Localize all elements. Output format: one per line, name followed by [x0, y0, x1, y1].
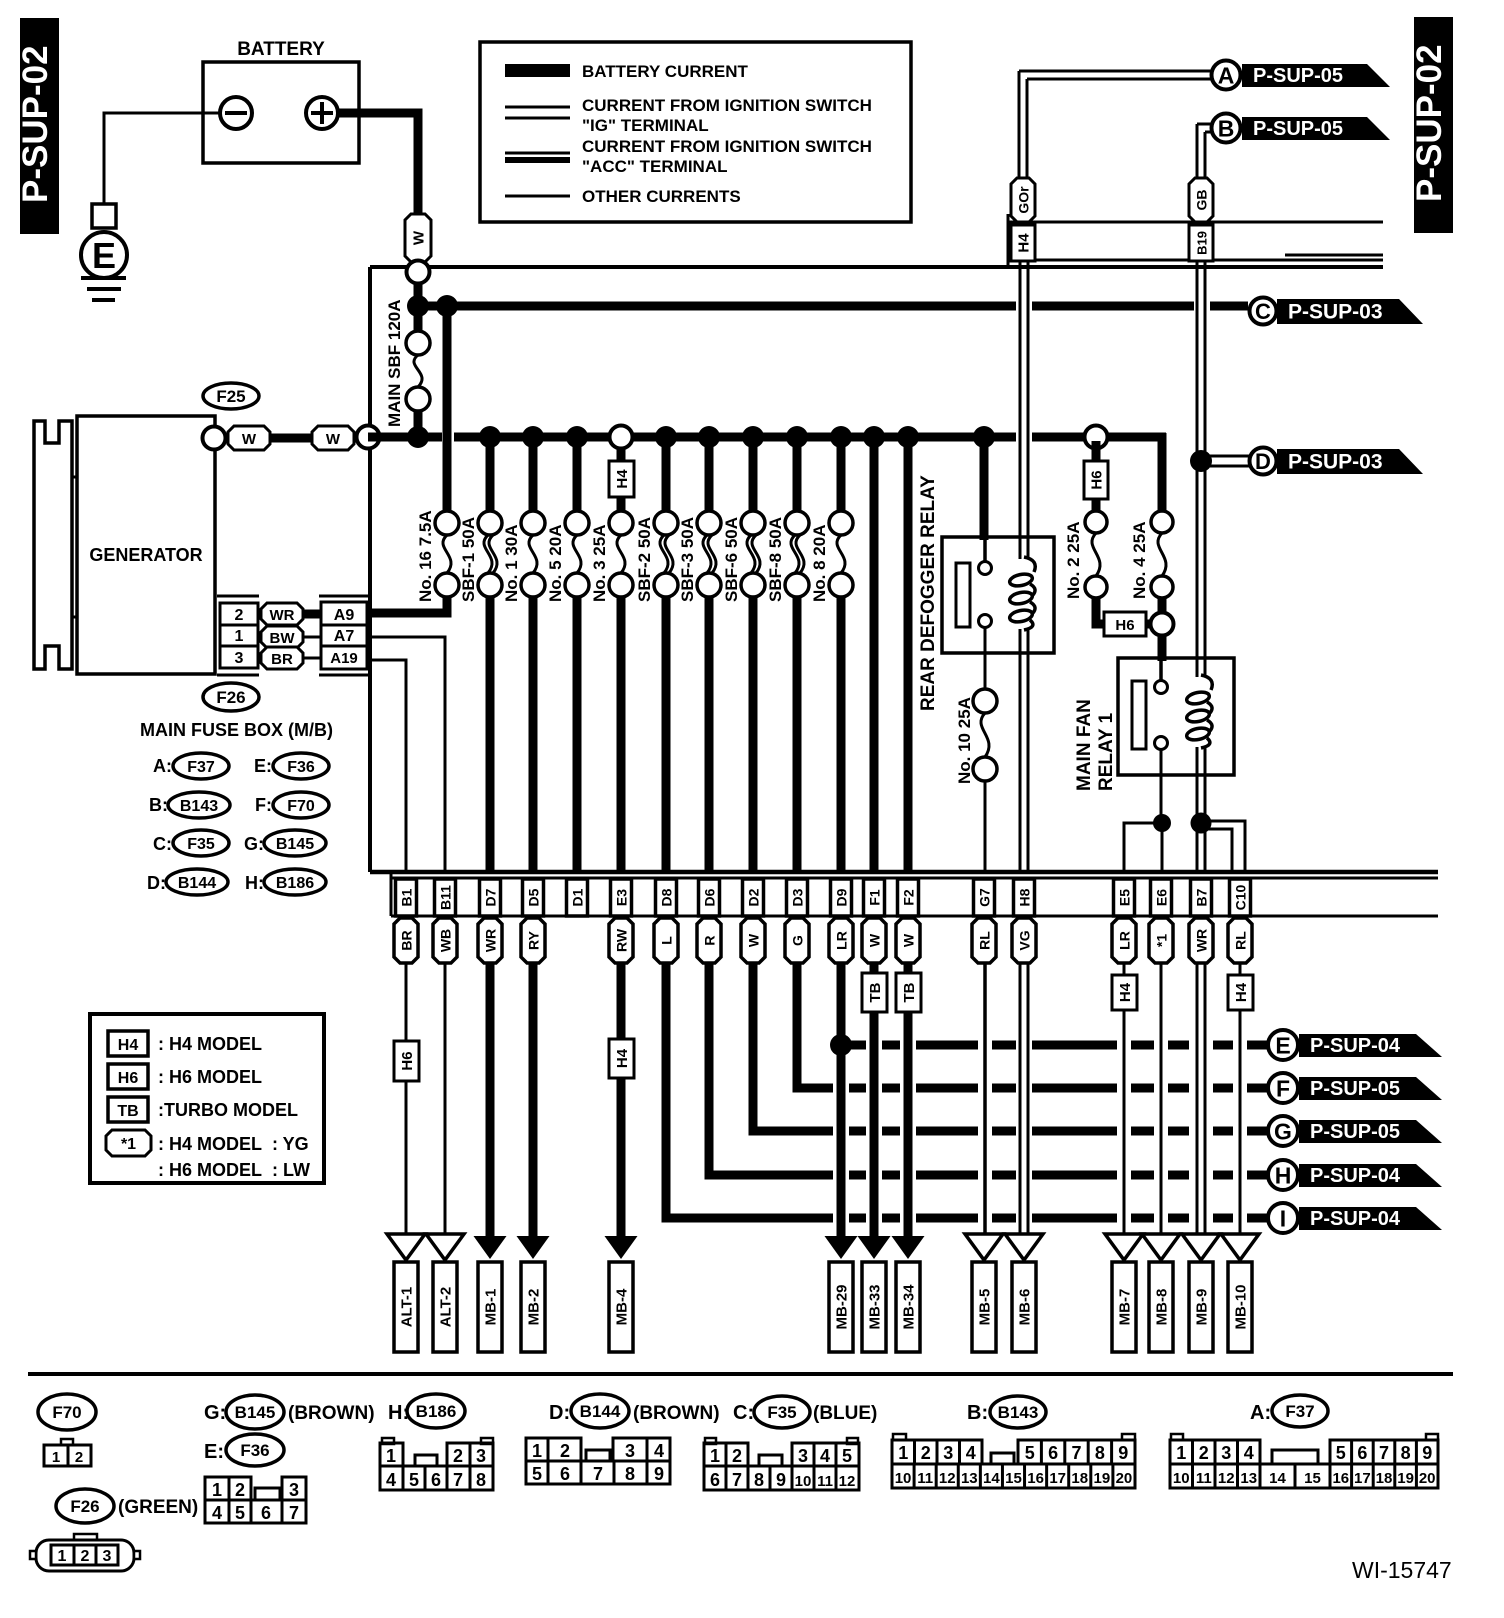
svg-text:H4: H4: [614, 1048, 631, 1068]
svg-text:A19: A19: [330, 650, 358, 667]
svg-text:MB-9: MB-9: [1194, 1289, 1211, 1326]
wire B7 WR to MB-9: [1196, 963, 1199, 1237]
svg-text:2: 2: [81, 1548, 90, 1565]
wire B1 BR to H6: [405, 963, 408, 1041]
arrow to ALT-1: [387, 1234, 425, 1260]
svg-text:4: 4: [1244, 1443, 1254, 1463]
pin E6 box: [1151, 879, 1172, 916]
svg-text:LR: LR: [1117, 931, 1133, 950]
svg-text:TB: TB: [867, 982, 884, 1002]
generator pins 2/1/3 box: [220, 603, 258, 668]
node connector fuse box left edge: [357, 426, 380, 449]
wire W pill fusebox side: [312, 426, 354, 450]
svg-text:MB-2: MB-2: [526, 1289, 543, 1326]
svg-text:F25: F25: [216, 387, 245, 406]
model legend H6: [108, 1064, 148, 1089]
svg-text:OTHER CURRENTS: OTHER CURRENTS: [582, 187, 741, 206]
pin E5 box: [1114, 879, 1135, 916]
svg-text:: H4 MODEL : YG: : H4 MODEL : YG: [158, 1134, 309, 1154]
wire E3 RW upper: [617, 963, 626, 1039]
legend box: [480, 42, 911, 222]
wire battery negative to ground: [104, 113, 203, 206]
svg-text:P-SUP-05: P-SUP-05: [1253, 65, 1343, 87]
legend ACC current symbol: [505, 152, 570, 155]
svg-text:5: 5: [532, 1464, 542, 1484]
node junction E line on MB-29 wire: [830, 1034, 852, 1056]
page title banner right P-SUP-02: [1414, 17, 1453, 233]
svg-text:5: 5: [235, 1503, 245, 1523]
svg-text:H4: H4: [614, 469, 631, 489]
wire bus to defogger contact: [980, 437, 989, 540]
model legend *1: [106, 1130, 151, 1156]
wire bus drop to fuse No. 8 20A: [837, 437, 846, 511]
terminal box MB-4: [609, 1262, 633, 1352]
node junction B7/C10 branch: [1191, 813, 1212, 834]
wire No.16 column: [443, 310, 452, 511]
wire GB label pill: [1189, 178, 1213, 222]
terminal box MB-1: [478, 1262, 502, 1352]
svg-text:19: 19: [1094, 1470, 1111, 1487]
wire fuse No. 3 25A to pin E3: [617, 597, 626, 874]
wire bus drop to fuse SBF-2 50A: [662, 437, 671, 511]
svg-text:W: W: [746, 933, 762, 947]
svg-text:6: 6: [261, 1503, 271, 1523]
svg-text:R: R: [702, 935, 718, 945]
svg-text:10: 10: [895, 1470, 912, 1487]
svg-text:1: 1: [235, 628, 244, 645]
fuse box pin strip: [390, 872, 393, 916]
svg-text:F36: F36: [287, 759, 315, 776]
pin F1 box: [864, 879, 885, 916]
svg-text:I: I: [1280, 1205, 1286, 1231]
wire H line: [709, 1171, 833, 1180]
generator box: [77, 416, 215, 674]
wire bus drop to F2: [904, 437, 913, 874]
terminal box MB-5: [972, 1262, 996, 1352]
wire color pill RW under E3: [609, 918, 633, 963]
svg-text:3: 3: [235, 650, 244, 667]
svg-text:MB-6: MB-6: [1017, 1289, 1034, 1326]
svg-text:H:: H:: [245, 873, 264, 893]
svg-text:ALT-1: ALT-1: [399, 1287, 416, 1328]
connector strip top right: [1007, 214, 1010, 267]
pin B11 box: [435, 879, 456, 916]
node bus junction x=418: [407, 426, 429, 448]
page title banner left P-SUP-02: [20, 18, 59, 234]
svg-text:6: 6: [560, 1464, 570, 1484]
svg-text:P-SUP-04: P-SUP-04: [1310, 1035, 1401, 1057]
svg-text:1: 1: [58, 1548, 67, 1565]
wire A9 battery feed to fuse No.16: [367, 596, 447, 613]
svg-text:D: D: [1255, 449, 1271, 474]
svg-text:7: 7: [289, 1503, 299, 1523]
wire G line: [753, 1127, 833, 1136]
svg-text:A: A: [1218, 62, 1235, 88]
wire bus drop to F1: [870, 437, 879, 874]
relay coil main fan: [1186, 675, 1213, 748]
wire color pill WB under B11: [433, 918, 457, 963]
svg-text:No. 5 20A: No. 5 20A: [546, 525, 565, 602]
svg-text:6: 6: [1357, 1443, 1367, 1463]
fuse SBF-1 50A: [478, 511, 502, 535]
model box H6 below fuses: [1104, 612, 1146, 636]
wire fuse SBF-3 50A to pin D6: [705, 597, 714, 874]
wire bus drop to fuse SBF-3 50A: [705, 437, 714, 511]
svg-text:(BROWN): (BROWN): [288, 1403, 375, 1424]
wire fuse No.4 to node: [1158, 598, 1167, 614]
svg-text:No. 3 25A: No. 3 25A: [590, 525, 609, 602]
wire color pill VG under H8: [1012, 918, 1036, 963]
wire F2 W to MB-34: [904, 1012, 913, 1238]
arrow E P-SUP-04: [1299, 1034, 1442, 1057]
wire fuse SBF-6 50A to pin D2: [749, 597, 758, 874]
svg-text:6: 6: [1048, 1443, 1058, 1463]
svg-text:MB-10: MB-10: [1233, 1284, 1250, 1329]
svg-text:1: 1: [1176, 1443, 1186, 1463]
svg-text:F37: F37: [1285, 1402, 1314, 1421]
svg-text:No. 16 7.5A: No. 16 7.5A: [416, 510, 435, 602]
svg-text:P-SUP-05: P-SUP-05: [1310, 1078, 1400, 1100]
connector H4 pin box: [1011, 225, 1035, 261]
node bus junction x=666: [655, 426, 677, 448]
arrow to MB-1: [474, 1236, 507, 1259]
svg-text:E: E: [1275, 1032, 1290, 1058]
svg-text:H6: H6: [1115, 617, 1134, 634]
fuse No. 10 25A: [973, 689, 997, 713]
svg-text:H6: H6: [399, 1051, 416, 1070]
svg-text:SBF-8 50A: SBF-8 50A: [766, 517, 785, 602]
svg-text:A7: A7: [334, 628, 355, 645]
svg-text:H4: H4: [118, 1037, 139, 1054]
terminal box MB-10: [1228, 1262, 1252, 1352]
pin D5 box: [523, 879, 544, 916]
wire D2 W to arrow G: [753, 963, 833, 1131]
svg-text:9: 9: [776, 1470, 786, 1490]
svg-text:No. 4 25A: No. 4 25A: [1130, 522, 1149, 599]
wire fan output to E5: [1124, 823, 1162, 874]
svg-text:G:: G:: [244, 834, 264, 854]
svg-text:E:: E:: [204, 1441, 224, 1463]
svg-text:"ACC" TERMINAL: "ACC" TERMINAL: [582, 157, 728, 176]
svg-text:1: 1: [532, 1441, 542, 1461]
arrow to MB-33: [858, 1236, 891, 1259]
svg-text:"IG" TERMINAL: "IG" TERMINAL: [582, 116, 709, 135]
svg-text:BR: BR: [271, 651, 293, 668]
fuse SBF-8 50A: [785, 511, 809, 535]
arrow to MB-10: [1221, 1234, 1259, 1260]
svg-text:D8: D8: [659, 888, 675, 906]
svg-text:12: 12: [839, 1473, 856, 1490]
svg-text:D2: D2: [746, 888, 762, 906]
fuse SBF-6 50A: [741, 511, 765, 535]
svg-text:RELAY 1: RELAY 1: [1096, 712, 1117, 791]
svg-text:D9: D9: [834, 888, 850, 906]
fuse No. 8 20A: [829, 511, 853, 535]
svg-text:13: 13: [1240, 1470, 1257, 1487]
wire E line: [841, 1041, 866, 1050]
wire color pill W under F2: [896, 918, 920, 963]
svg-text:P-SUP-03: P-SUP-03: [1288, 450, 1383, 473]
wire battery positive feed: [338, 113, 418, 216]
svg-text:*1: *1: [1154, 934, 1170, 947]
connector F37 pinout: [1171, 1434, 1183, 1440]
svg-text:P-SUP-04: P-SUP-04: [1310, 1208, 1401, 1230]
svg-text:2: 2: [560, 1441, 570, 1461]
svg-text:LR: LR: [834, 931, 850, 950]
svg-text:D7: D7: [483, 888, 499, 906]
connector F26 label: [203, 683, 259, 711]
svg-text:E3: E3: [614, 889, 630, 906]
terminal box MB-34: [896, 1262, 920, 1352]
wire fuse No. 1 30A to pin D5: [529, 597, 538, 874]
arrow to MB-34: [892, 1236, 925, 1259]
svg-text:REAR DEFOGGER RELAY: REAR DEFOGGER RELAY: [918, 475, 939, 711]
generator pin connector bracket: [217, 595, 259, 598]
svg-text:11: 11: [1196, 1470, 1212, 1487]
wire color pill LR under E5: [1112, 918, 1136, 963]
terminal box MB-2: [521, 1262, 545, 1352]
svg-text:B:: B:: [149, 795, 168, 815]
wire color pill RL under C10: [1228, 918, 1252, 963]
arrow I P-SUP-04: [1299, 1207, 1442, 1230]
wire fan output to E6: [1161, 823, 1164, 874]
svg-text:5: 5: [1025, 1443, 1035, 1463]
wire W pill generator: [228, 426, 270, 450]
svg-text:(GREEN): (GREEN): [118, 1497, 198, 1518]
connector F70 pinout: [61, 1439, 73, 1445]
fusebox pins A9/A7/A19 box: [321, 602, 367, 669]
pin G7 box: [974, 879, 995, 916]
svg-text:No. 1 30A: No. 1 30A: [502, 525, 521, 602]
svg-text:H4: H4: [1233, 982, 1250, 1002]
svg-text:(BLUE): (BLUE): [813, 1403, 877, 1424]
svg-text:6: 6: [431, 1470, 441, 1490]
generator bracket: [34, 421, 72, 669]
wire fan contact output: [1160, 750, 1163, 823]
svg-text:F36: F36: [240, 1441, 269, 1460]
wire fuse No. 5 20A to pin D1: [573, 597, 582, 874]
svg-text:5: 5: [1336, 1443, 1346, 1463]
svg-text:4: 4: [654, 1441, 664, 1461]
svg-text:RL: RL: [1233, 931, 1249, 950]
wire battery feed into fuse box: [414, 262, 423, 332]
svg-text:9: 9: [1422, 1443, 1432, 1463]
fuse No. 1 30A: [521, 511, 545, 535]
pin B1 box: [396, 879, 417, 916]
arrow to MB-9: [1182, 1234, 1220, 1260]
wire H6 to ALT-1: [405, 1081, 408, 1235]
pin D6 box: [699, 879, 720, 916]
model legend H4: [108, 1031, 148, 1056]
svg-text:H4: H4: [1016, 233, 1033, 253]
svg-text:2: 2: [453, 1446, 463, 1466]
svg-text:14: 14: [983, 1470, 1000, 1487]
relay coil rear defogger: [1009, 557, 1036, 630]
wire GB B19 column: [1196, 261, 1199, 677]
svg-text:5: 5: [842, 1446, 852, 1466]
wire E6 *1 to MB-8: [1160, 963, 1163, 1237]
svg-text:BATTERY: BATTERY: [237, 39, 325, 60]
wire color pill WR under B7: [1189, 918, 1213, 963]
wire bus branch to H6 No.2: [1092, 441, 1101, 461]
svg-text:C10: C10: [1233, 884, 1249, 910]
wire bus to H4 box No.3: [617, 441, 626, 461]
arrow to MB-7: [1105, 1234, 1143, 1260]
model legend box: [90, 1014, 324, 1183]
wire D9 LR to MB-29: [837, 963, 846, 1238]
svg-text:C:: C:: [153, 834, 172, 854]
svg-text:1: 1: [212, 1480, 222, 1500]
connector F25 label: [203, 383, 259, 409]
wire node to fan relay contact: [1158, 635, 1167, 661]
svg-text:G7: G7: [977, 888, 993, 907]
wire bus to fuse No.4: [1158, 508, 1167, 513]
wire E3 RW to MB-4: [617, 1078, 626, 1238]
svg-text:A:: A:: [1250, 1402, 1271, 1424]
svg-text:8: 8: [1095, 1443, 1105, 1463]
svg-text:H6: H6: [118, 1070, 139, 1087]
svg-text:MB-5: MB-5: [977, 1289, 994, 1326]
svg-text:RY: RY: [526, 930, 542, 950]
relay box rear defogger: [942, 537, 1054, 653]
wire bus drop to fuse SBF-8 50A: [793, 437, 802, 511]
svg-text:15: 15: [1304, 1470, 1321, 1487]
svg-text:B145: B145: [276, 836, 314, 853]
svg-text:B1: B1: [399, 888, 415, 906]
svg-text:MAIN FAN: MAIN FAN: [1074, 699, 1095, 791]
wire F line: [797, 1084, 833, 1093]
wire E5 LR to MB-7: [1123, 1010, 1126, 1237]
wire W pill battery feed: [405, 214, 431, 262]
wire H8 VG through defogger coil: [1019, 261, 1022, 559]
model box H4 on MB-7 wire: [1112, 975, 1137, 1010]
svg-text:F70: F70: [287, 798, 315, 815]
svg-text:WB: WB: [438, 929, 454, 952]
node bus junction x=797: [786, 426, 808, 448]
svg-text:7: 7: [453, 1470, 463, 1490]
svg-text:1: 1: [52, 1449, 60, 1466]
svg-text:E: E: [92, 235, 116, 276]
legend battery current symbol: [505, 64, 570, 77]
svg-text:ALT-2: ALT-2: [438, 1287, 455, 1328]
wire E5 LR upper: [1123, 963, 1126, 975]
terminal box MB-8: [1149, 1262, 1173, 1352]
node junction C-line left: [407, 295, 429, 317]
svg-text:BR: BR: [399, 930, 415, 950]
wire color pill LR under D9: [829, 918, 853, 963]
svg-text:18: 18: [1376, 1470, 1393, 1487]
svg-text:2: 2: [732, 1446, 742, 1466]
svg-text:(BROWN): (BROWN): [633, 1403, 720, 1424]
svg-text:GENERATOR: GENERATOR: [89, 545, 202, 565]
arrow to MB-2: [517, 1236, 550, 1259]
wire color pill R under D6: [697, 918, 721, 963]
svg-text:F35: F35: [187, 836, 215, 853]
connector B143 pinout: [893, 1434, 906, 1440]
arrow to MB-29: [825, 1236, 858, 1259]
svg-text:F26: F26: [70, 1497, 99, 1516]
wire fuse No.10 to pin G7: [984, 781, 987, 874]
wire D8 L to arrow I: [666, 963, 833, 1218]
svg-text:3: 3: [103, 1548, 112, 1565]
svg-text:A:: A:: [153, 756, 172, 776]
svg-text:H: H: [1275, 1162, 1292, 1188]
terminal box MB-7: [1112, 1262, 1136, 1352]
svg-text:6: 6: [710, 1470, 720, 1490]
model legend TB: [108, 1097, 148, 1122]
svg-text:11: 11: [817, 1473, 833, 1490]
svg-text:MB-7: MB-7: [1117, 1289, 1134, 1326]
svg-text:SBF-1 50A: SBF-1 50A: [459, 517, 478, 602]
svg-text:3: 3: [798, 1446, 808, 1466]
wire C line P-SUP-03: [418, 302, 1016, 311]
svg-text:2: 2: [235, 1480, 245, 1500]
svg-text:3: 3: [943, 1443, 953, 1463]
svg-text:15: 15: [1005, 1470, 1022, 1487]
wire fuse No. 8 20A to pin D9: [837, 597, 846, 874]
wire to arrow D: [1201, 455, 1251, 458]
svg-text:4: 4: [966, 1443, 976, 1463]
svg-text:A9: A9: [334, 607, 355, 624]
node bus junction x=874: [863, 426, 885, 448]
fusebox pin connector bracket: [319, 595, 368, 598]
svg-text:7: 7: [593, 1464, 603, 1484]
model box TB on MB-33 wire: [862, 973, 887, 1012]
wire GOr label pill: [1011, 178, 1035, 222]
svg-text:2: 2: [921, 1443, 931, 1463]
fuse SBF-3 50A: [697, 511, 721, 535]
svg-text:12: 12: [939, 1470, 956, 1487]
pin D8 box: [656, 879, 677, 916]
svg-text:W: W: [411, 230, 428, 245]
svg-text:SBF-2 50A: SBF-2 50A: [635, 517, 654, 602]
svg-text:P-SUP-05: P-SUP-05: [1253, 118, 1343, 140]
pin B7 box: [1191, 879, 1212, 916]
svg-text:E6: E6: [1154, 889, 1170, 906]
svg-text:D:: D:: [147, 873, 166, 893]
node bus junction x=753: [742, 426, 764, 448]
wire branch to C10 pin: [1205, 821, 1245, 874]
arrow A P-SUP-05: [1242, 64, 1390, 87]
svg-text:H4: H4: [1117, 982, 1134, 1002]
svg-text:7: 7: [732, 1470, 742, 1490]
svg-text:CURRENT FROM IGNITION SWITCH: CURRENT FROM IGNITION SWITCH: [582, 137, 872, 156]
pin D7 box: [480, 879, 501, 916]
legend other currents symbol: [505, 195, 570, 198]
node bus junction x=577: [566, 426, 588, 448]
svg-text:WI-15747: WI-15747: [1352, 1557, 1452, 1583]
model box H6 above No.2 fuse: [1084, 461, 1108, 499]
svg-text:10: 10: [795, 1473, 812, 1490]
svg-text:*1: *1: [121, 1136, 136, 1153]
svg-text:16: 16: [1332, 1470, 1349, 1487]
svg-text:B186: B186: [416, 1402, 457, 1421]
terminal box ALT-1: [394, 1262, 418, 1352]
wire C10 RL to MB-10: [1239, 1010, 1242, 1237]
arrow B P-SUP-05: [1242, 117, 1390, 140]
svg-text:14: 14: [1269, 1470, 1286, 1487]
wire bus drop to fuse SBF-1 50A: [486, 437, 495, 511]
svg-text:No. 10 25A: No. 10 25A: [955, 697, 974, 784]
svg-text:4: 4: [386, 1470, 396, 1490]
connector B19 pin box: [1189, 225, 1213, 261]
wire color BW pill: [261, 626, 303, 648]
fuse MAIN SBF 120A: [406, 331, 430, 355]
svg-text:E5: E5: [1117, 889, 1133, 906]
pin D9 box: [831, 879, 852, 916]
svg-text:B145: B145: [235, 1403, 276, 1422]
svg-text:G:: G:: [204, 1402, 226, 1424]
